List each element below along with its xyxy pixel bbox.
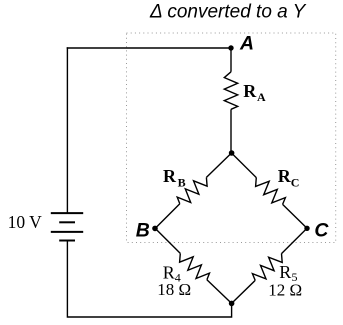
wire: RA to center node bbox=[230, 109, 232, 153]
wire: R5 to bottom node bbox=[232, 280, 256, 303]
node: center junction of Y bbox=[229, 150, 235, 156]
resistor RC bbox=[256, 178, 286, 205]
node: bottom junction bbox=[229, 301, 235, 307]
wire: node B to R4 bbox=[155, 228, 180, 253]
node C bbox=[304, 226, 309, 231]
svg-text:R: R bbox=[279, 262, 291, 282]
wire: R4 to bottom node bbox=[207, 280, 232, 304]
svg-text:A: A bbox=[257, 90, 266, 104]
wire: node A down to RA bbox=[230, 47, 232, 72]
wire left: top corner down to battery bbox=[66, 47, 68, 213]
resistor R4 bbox=[180, 253, 210, 279]
svg-text:B: B bbox=[136, 219, 150, 241]
dashed boundary box of Y network bbox=[127, 33, 336, 243]
svg-text:18 Ω: 18 Ω bbox=[157, 280, 191, 299]
svg-text:R: R bbox=[163, 166, 177, 186]
svg-text:R: R bbox=[243, 81, 257, 101]
node A bbox=[228, 45, 233, 50]
svg-text:C: C bbox=[314, 219, 329, 241]
svg-text:C: C bbox=[291, 176, 300, 190]
resistor RA bbox=[224, 72, 237, 110]
wire: center node to RB bbox=[206, 153, 231, 177]
node B bbox=[152, 226, 158, 232]
svg-text:R: R bbox=[278, 166, 292, 186]
svg-text:Δ converted to a Y: Δ converted to a Y bbox=[149, 2, 307, 23]
wire top: battery top to node A bbox=[67, 47, 231, 49]
svg-text:12 Ω: 12 Ω bbox=[268, 280, 302, 299]
svg-text:A: A bbox=[239, 32, 254, 54]
wire: center node to RC bbox=[232, 153, 257, 178]
battery V1 10 V bbox=[51, 213, 83, 240]
resistor R5 bbox=[252, 254, 282, 281]
wire: RB to node B bbox=[155, 204, 180, 229]
svg-text:B: B bbox=[178, 176, 186, 190]
wire: node C to R5 bbox=[282, 228, 308, 253]
wire: RC to node C bbox=[283, 204, 307, 228]
wire bottom: battery bottom around to bottom node bbox=[67, 241, 231, 318]
svg-text:10 V: 10 V bbox=[8, 212, 43, 232]
resistor RB bbox=[177, 177, 207, 203]
